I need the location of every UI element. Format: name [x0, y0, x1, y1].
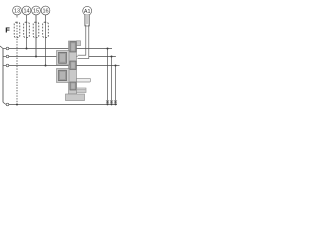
fuse F4 dashed box	[43, 22, 49, 37]
coax connector hatched below A1	[85, 15, 90, 26]
plug x-mark 3	[114, 100, 117, 103]
junction dot bottom/dashed col	[16, 104, 18, 106]
wire column 16 drop	[45, 15, 47, 66]
amplifier A1 circle	[83, 6, 92, 15]
svg-text:A1: A1	[84, 9, 91, 15]
fuse F3 dashed box	[33, 22, 39, 37]
distribution block: left module dark square 1	[59, 52, 67, 63]
junction dot row2/right drop	[111, 56, 113, 58]
distribution block: rail dark square 1	[70, 42, 76, 52]
wire row 1	[9, 48, 112, 50]
distribution block: bottom-right hatched connector	[77, 88, 87, 93]
svg-text:F: F	[5, 26, 10, 35]
wire row 3	[9, 65, 120, 67]
svg-text:13: 13	[14, 9, 20, 15]
terminal circle left 1	[6, 47, 9, 50]
coax cable double line from A1 down with elbow left into block	[78, 25, 86, 56]
wire: left entry diagonal	[0, 46, 3, 49]
wire: bus stub to terminal 1	[3, 48, 6, 50]
distribution block: top-right tab	[77, 41, 81, 46]
terminal circle bottom left	[6, 103, 9, 106]
wire bottom bus	[9, 104, 117, 106]
fuse F2 dashed box	[24, 22, 30, 37]
wire: left vertical bus	[2, 49, 4, 103]
junction dot row2/col15	[35, 56, 37, 58]
terminal circle 13	[13, 6, 22, 15]
wire: bus stub to terminal 2	[3, 56, 6, 58]
distribution block: bottom foot	[66, 94, 85, 101]
terminal circle 15	[32, 6, 41, 15]
junction dot bus/right drop 1	[107, 104, 109, 106]
svg-text:16: 16	[42, 9, 48, 15]
wire: right drop 1	[107, 49, 109, 105]
distribution block: rail dark square 2	[70, 61, 76, 70]
fuse F1 dashed box	[14, 22, 20, 37]
wire column 14 drop	[26, 15, 28, 49]
junction dot bus/right drop 2	[111, 104, 113, 106]
wire row 2	[9, 56, 78, 58]
wire: right drop 3	[115, 66, 117, 105]
distribution block: mid-right tab	[77, 78, 91, 82]
wire column 13 dashed drop	[16, 15, 18, 18]
terminal circle left 2	[6, 55, 9, 58]
junction dot row3/col16	[45, 65, 47, 67]
distribution block: rail dark square 3	[70, 82, 76, 90]
junction dot row3/right drop	[115, 65, 117, 67]
terminal circle left 3	[6, 64, 9, 67]
distribution block: left module housing 2	[57, 69, 70, 83]
terminal circle 14	[22, 6, 31, 15]
svg-text:15: 15	[33, 9, 39, 15]
junction dot row1/right drop	[107, 48, 109, 50]
svg-text:14: 14	[23, 9, 29, 15]
wire column 15 drop	[35, 15, 37, 57]
wire: bus diagonal to bottom terminal	[3, 102, 6, 104]
wire: right drop 2	[111, 57, 113, 105]
plug x-mark 2	[110, 100, 113, 103]
terminal circle 16	[41, 6, 50, 15]
wire: bus stub to terminal 3	[3, 65, 6, 67]
distribution block: left module housing 1	[57, 51, 70, 66]
junction dot row1/col14	[26, 48, 28, 50]
distribution block: rail body	[69, 41, 77, 94]
plug x-mark 1	[106, 100, 109, 103]
distribution block: left module dark square 2	[59, 70, 67, 81]
junction dot bus/right drop 3	[115, 104, 117, 106]
